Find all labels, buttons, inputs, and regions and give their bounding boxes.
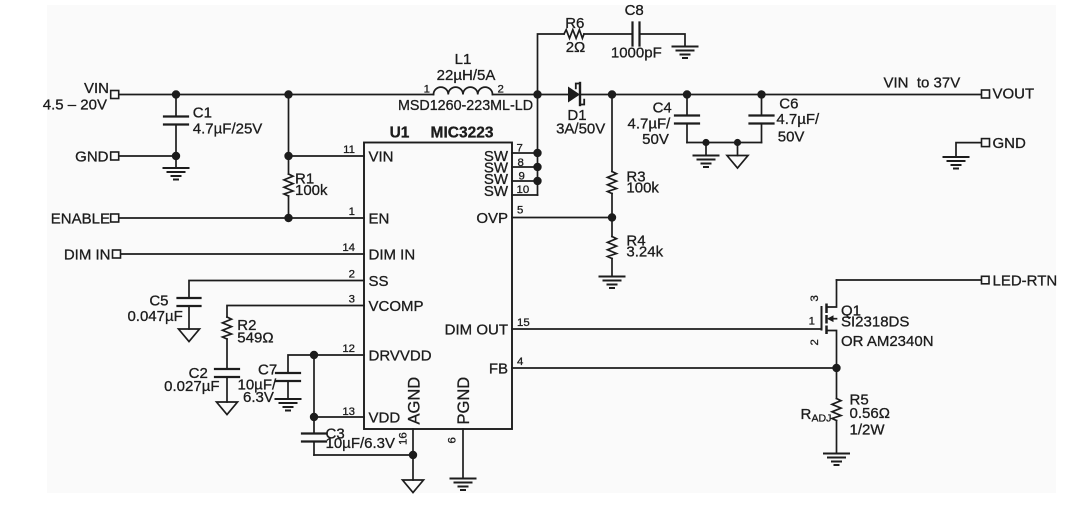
wire DIM IN	[119, 253, 364, 255]
capacitor C6	[761, 95, 763, 116]
svg-text:3A/50V: 3A/50V	[556, 120, 605, 137]
resistor R1	[284, 174, 293, 196]
resistor R2	[223, 317, 232, 339]
ground below C7	[276, 399, 301, 411]
svg-text:50V: 50V	[778, 129, 805, 146]
svg-text:VDD: VDD	[369, 409, 401, 426]
svg-text:SS: SS	[369, 273, 389, 290]
node C6 junction	[757, 90, 765, 98]
ground triangle AGND	[403, 480, 424, 493]
capacitor C8	[633, 23, 640, 46]
svg-text:100k: 100k	[295, 182, 328, 199]
svg-text:VIN to 37V: VIN to 37V	[884, 75, 961, 92]
svg-text:549Ω: 549Ω	[237, 330, 273, 347]
wire DRVVDD pin to C7	[288, 355, 364, 373]
node SW9 junction	[533, 177, 541, 185]
svg-text:1: 1	[809, 316, 815, 328]
svg-text:2: 2	[349, 269, 355, 281]
wire C8 to ground	[640, 34, 685, 47]
inductor L1	[434, 87, 493, 94]
node C4 junction	[683, 90, 691, 98]
svg-text:DIM IN: DIM IN	[369, 246, 416, 263]
svg-text:2: 2	[809, 339, 821, 345]
wire joining C4 C6 bottoms	[687, 142, 762, 144]
wire VIN rail left	[119, 94, 434, 96]
node C6 gnd junction	[734, 139, 741, 146]
wire SW pin 8 stub	[512, 166, 538, 168]
svg-text:6.3V: 6.3V	[243, 389, 274, 406]
wire VIN rail L1 to D1	[493, 94, 569, 96]
svg-text:11: 11	[343, 144, 355, 156]
svg-text:1/2W: 1/2W	[850, 422, 886, 439]
svg-text:C1: C1	[193, 105, 212, 122]
wire snubber branch vertical	[538, 34, 565, 95]
resistor R3	[608, 172, 617, 194]
node DRVVDD junction	[310, 351, 318, 359]
node C1 GND junction	[172, 152, 180, 160]
svg-text:9: 9	[519, 171, 525, 183]
wire R5 top lead	[836, 368, 838, 399]
svg-text:15: 15	[517, 317, 530, 329]
ground triangle below C2	[217, 402, 238, 415]
svg-text:GND: GND	[993, 135, 1027, 152]
svg-text:50V: 50V	[642, 131, 669, 148]
svg-text:3: 3	[349, 294, 355, 306]
transistor Q1	[821, 307, 823, 330]
svg-text:4.7µF/25V: 4.7µF/25V	[193, 120, 263, 137]
wire SW pin 9 stub	[512, 180, 538, 182]
svg-text:U1: U1	[390, 125, 410, 142]
wire SW pin 7 stub	[512, 152, 538, 154]
wire R1 top lead from VIN rail	[288, 95, 290, 175]
svg-text:100k: 100k	[626, 179, 659, 196]
svg-text:R: R	[801, 406, 812, 423]
svg-text:4.5 – 20V: 4.5 – 20V	[43, 97, 107, 114]
svg-text:4: 4	[517, 356, 523, 368]
svg-text:10: 10	[517, 184, 530, 196]
capacitor C4	[686, 95, 688, 116]
wire DRVVDD junction down to VDD row	[313, 355, 315, 417]
wire VDD pin	[314, 416, 364, 418]
node SW8 junction	[533, 163, 541, 171]
terminal ENABLE	[111, 214, 119, 222]
svg-text:SW: SW	[484, 183, 509, 200]
wire ENABLE to EN pin	[119, 217, 364, 219]
node EN junction	[284, 214, 292, 222]
svg-text:16: 16	[398, 432, 410, 445]
node R1 top junction	[284, 90, 292, 98]
svg-text:0.047µF: 0.047µF	[127, 308, 182, 325]
svg-text:C8: C8	[625, 2, 644, 19]
node AGND junction	[409, 451, 417, 459]
svg-text:12: 12	[342, 343, 355, 355]
svg-text:VIN: VIN	[369, 148, 394, 165]
wire PGND pin 6	[462, 429, 464, 479]
svg-text:ADJ: ADJ	[812, 413, 832, 425]
node C4 gnd junction	[702, 139, 709, 146]
ground snubber	[673, 47, 698, 59]
svg-text:DIM OUT: DIM OUT	[445, 321, 508, 338]
wire AGND pin 16	[412, 429, 414, 480]
wire DIM OUT pin 15 to Q1 gate	[512, 328, 822, 330]
node OVP junction	[608, 213, 616, 221]
svg-text:OVP: OVP	[476, 210, 508, 227]
wire OVP pin 5	[512, 217, 612, 219]
node VDD junction	[310, 413, 318, 421]
resistor R6	[564, 30, 584, 39]
svg-text:R6: R6	[565, 15, 584, 32]
svg-text:EN: EN	[369, 210, 390, 227]
capacitor C5	[178, 298, 201, 306]
wire LED-RTN	[837, 279, 982, 281]
ground earth below join	[694, 156, 719, 168]
wire SW pin 10 stub	[512, 194, 538, 196]
wire R1 bottom lead	[288, 196, 290, 218]
node Q1 source FB junction	[832, 364, 840, 372]
svg-text:6: 6	[447, 437, 459, 443]
svg-text:2Ω: 2Ω	[566, 39, 586, 56]
node D1 cathode junction	[608, 90, 616, 98]
svg-text:1000pF: 1000pF	[611, 44, 662, 61]
svg-text:GND: GND	[75, 148, 109, 165]
terminal DIM IN	[113, 250, 121, 258]
wire R4 bottom lead	[611, 259, 613, 277]
capacitor C2	[215, 369, 239, 377]
ground below R4	[600, 277, 625, 289]
svg-text:2: 2	[498, 84, 504, 96]
svg-text:VOUT: VOUT	[993, 86, 1035, 103]
capacitor C1	[175, 95, 177, 117]
svg-text:1: 1	[424, 84, 430, 96]
terminal GND right	[982, 139, 990, 147]
svg-text:C4: C4	[653, 100, 672, 117]
svg-text:OR AM2340N: OR AM2340N	[841, 333, 934, 350]
svg-text:10µF/6.3V: 10µF/6.3V	[326, 435, 396, 452]
ground triangle below join	[727, 156, 748, 169]
wire C3 bottom to AGND	[314, 454, 413, 456]
svg-text:ENABLE: ENABLE	[51, 210, 110, 227]
resistor R4	[608, 237, 617, 259]
svg-text:DRVVDD: DRVVDD	[369, 347, 432, 364]
node VIN pin junction	[284, 152, 292, 160]
svg-text:7: 7	[517, 143, 523, 155]
svg-text:3.24k: 3.24k	[626, 244, 663, 261]
wire GND terminal to C1	[119, 155, 176, 157]
wire R2 to C2	[226, 339, 228, 369]
svg-text:14: 14	[342, 242, 355, 254]
svg-text:4.7µF/: 4.7µF/	[627, 115, 671, 132]
svg-text:MIC3223: MIC3223	[431, 125, 494, 142]
ground PGND	[451, 479, 476, 491]
terminal LED-RTN	[982, 276, 990, 284]
svg-text:VCOMP: VCOMP	[369, 298, 424, 315]
wire R5 bottom lead	[836, 421, 838, 454]
terminal VIN	[111, 91, 119, 99]
node L1/D1/snubber junction	[533, 90, 541, 98]
svg-text:C6: C6	[779, 96, 798, 113]
svg-text:FB: FB	[489, 360, 508, 377]
wire SS pin to C5	[189, 281, 364, 298]
svg-text:L1: L1	[455, 51, 472, 68]
node SW7 junction	[533, 149, 541, 157]
svg-text:MSD1260-223ML-LD: MSD1260-223ML-LD	[398, 98, 533, 114]
wire R3 to OVP junction	[611, 194, 613, 218]
svg-text:AGND: AGND	[405, 377, 423, 425]
terminal GND left	[111, 152, 119, 160]
svg-text:0.027µF: 0.027µF	[164, 378, 219, 395]
capacitor C3	[313, 417, 315, 434]
ground right	[944, 157, 969, 169]
svg-text:22µH/5A: 22µH/5A	[437, 67, 496, 84]
wire R6 to C8	[584, 33, 632, 35]
svg-text:5: 5	[517, 205, 523, 217]
wire VIN pin 11	[289, 155, 365, 157]
svg-text:DIM IN: DIM IN	[64, 246, 111, 263]
node C1 top junction	[172, 90, 180, 98]
wire VCOMP pin to R2	[227, 306, 364, 318]
wire R4 top lead	[611, 218, 613, 237]
svg-text:0.56Ω: 0.56Ω	[850, 405, 890, 422]
diode D1	[568, 87, 580, 103]
svg-text:13: 13	[342, 406, 355, 418]
wire R3 top lead from rail	[611, 95, 613, 172]
wire FB pin 4 to R5 junction	[512, 367, 837, 369]
ground below C1	[175, 156, 177, 168]
svg-text:3: 3	[809, 295, 821, 301]
ground triangle below C5	[179, 329, 200, 342]
svg-text:VIN: VIN	[84, 80, 109, 97]
svg-text:8: 8	[518, 157, 524, 169]
terminal VOUT	[982, 90, 990, 98]
svg-text:PGND: PGND	[455, 377, 473, 425]
resistor R5	[832, 399, 841, 421]
ground below R5	[824, 454, 849, 466]
capacitor C7	[276, 373, 300, 381]
ground triangle stub	[737, 143, 739, 156]
wire VOUT rail D1 to VOUT terminal	[581, 94, 982, 96]
ground stub below join	[705, 143, 707, 156]
wire SW bus	[537, 95, 539, 196]
svg-text:LED-RTN: LED-RTN	[993, 273, 1058, 290]
wire GND right terminal	[956, 143, 982, 157]
svg-text:4.7µF/: 4.7µF/	[776, 111, 820, 128]
svg-text:1: 1	[349, 206, 355, 218]
IC U1 box	[364, 143, 512, 430]
svg-text:SI2318DS: SI2318DS	[841, 314, 909, 331]
